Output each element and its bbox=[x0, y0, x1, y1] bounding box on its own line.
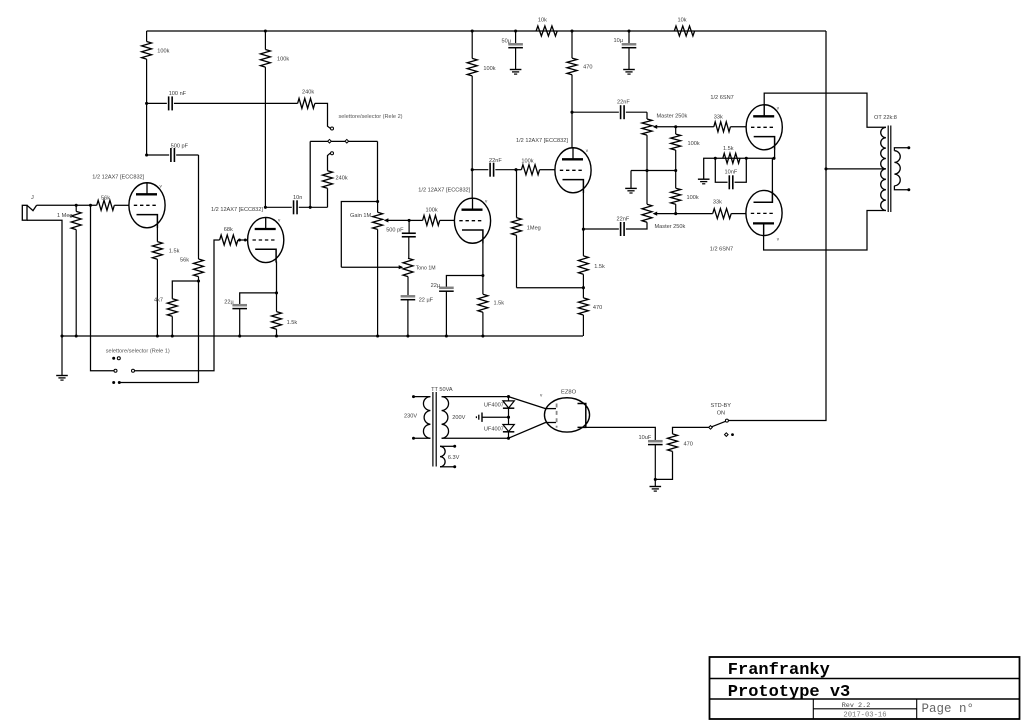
node HV top bbox=[507, 395, 510, 398]
svg-text:1.5k: 1.5k bbox=[494, 301, 505, 307]
node R14 gnd bbox=[481, 334, 484, 337]
node Gain pot top bbox=[376, 200, 379, 203]
resistor R24 33k upper 6SN7 grid bbox=[676, 126, 714, 128]
capacitor C9 50u rail filter bbox=[514, 29, 517, 32]
switch Rele1 row1 contacts bbox=[112, 357, 115, 360]
switch Rele2 lower contact bbox=[331, 152, 334, 155]
svg-text:Franfranky: Franfranky bbox=[728, 661, 830, 680]
svg-text:470: 470 bbox=[593, 305, 602, 311]
svg-text:1.5k: 1.5k bbox=[287, 320, 298, 326]
svg-text:33k: 33k bbox=[713, 200, 722, 206]
transformer OT 22k:8 output bbox=[881, 127, 886, 210]
node V2 grid dots bbox=[238, 239, 241, 242]
ground bias network bbox=[704, 158, 716, 179]
svg-text:22µ: 22µ bbox=[224, 300, 234, 306]
svg-text:10k: 10k bbox=[678, 18, 687, 24]
svg-text:240k: 240k bbox=[302, 89, 314, 95]
node mid-pot bbox=[645, 169, 648, 172]
resistor R12 100k V3 grid bbox=[423, 215, 440, 225]
svg-text:4k7: 4k7 bbox=[154, 298, 163, 304]
svg-text:Page n°: Page n° bbox=[922, 702, 975, 716]
resistor R5 1.5k V1 cathode bbox=[152, 242, 162, 260]
PT HV secondary winding bbox=[442, 397, 449, 439]
svg-text:1/2 12AX7 [ECC832]: 1/2 12AX7 [ECC832] bbox=[92, 174, 144, 180]
wire B+ top rail bbox=[147, 30, 826, 32]
node bias right bbox=[745, 157, 748, 160]
svg-text:1/2 12AX7 [ECC832]: 1/2 12AX7 [ECC832] bbox=[418, 188, 470, 194]
capacitor C11 22nF to upper Master bbox=[572, 111, 619, 113]
title block row lines bbox=[710, 678, 1020, 680]
capacitor C7 22u V3 bypass bbox=[446, 276, 483, 288]
wire HV top lead bbox=[442, 396, 509, 398]
wire cathodes to bias network bbox=[715, 157, 774, 159]
node HV bottom bbox=[507, 437, 510, 440]
svg-text:v: v bbox=[485, 199, 488, 204]
svg-text:EZ8O: EZ8O bbox=[561, 390, 577, 396]
capacitor C3 10n coupling bbox=[265, 206, 291, 208]
tube V3 1/2 12AX7 bbox=[454, 198, 490, 243]
OT secondary winding bbox=[894, 151, 900, 186]
node bias left bbox=[714, 157, 717, 160]
svg-text:10uF: 10uF bbox=[639, 435, 652, 441]
wire HV bottom lead bbox=[442, 437, 509, 439]
svg-text:33k: 33k bbox=[714, 114, 723, 120]
svg-text:22µ: 22µ bbox=[431, 283, 441, 289]
resistor R4 56k grid stopper bbox=[97, 200, 115, 210]
svg-text:56k: 56k bbox=[101, 195, 110, 201]
wire OT center tap bbox=[826, 168, 886, 170]
node input-relay bbox=[89, 204, 92, 207]
svg-text:1.5k: 1.5k bbox=[723, 146, 734, 152]
svg-text:22nF: 22nF bbox=[617, 100, 630, 106]
svg-text:Tono 1M: Tono 1M bbox=[416, 266, 436, 272]
svg-text:STD-BY: STD-BY bbox=[711, 403, 732, 409]
svg-text:OT 22k:8: OT 22k:8 bbox=[874, 115, 897, 121]
svg-text:100k: 100k bbox=[687, 195, 699, 201]
svg-text:200V: 200V bbox=[452, 415, 465, 421]
node V4 tail junction bbox=[582, 286, 585, 289]
resistor R26 1.5k 6SN7 cathode bbox=[723, 153, 740, 163]
resistor R22 100k upper bbox=[675, 127, 677, 134]
svg-text:22nF: 22nF bbox=[617, 216, 630, 222]
svg-text:100k: 100k bbox=[483, 66, 495, 72]
node Master upper wiper bbox=[674, 125, 677, 128]
wire V6 plate to OT bottom bbox=[764, 211, 886, 251]
EZ80 plates dashed bbox=[556, 404, 558, 428]
node input-1Meg bbox=[75, 204, 78, 207]
wire Rele1 row3 bbox=[121, 382, 199, 384]
PT primary winding bbox=[423, 397, 430, 439]
svg-text:J: J bbox=[31, 195, 34, 201]
switch Rele2 upper contact bbox=[331, 127, 334, 130]
svg-text:100k: 100k bbox=[521, 158, 533, 164]
tube V1 1/2 12AX7 bbox=[129, 183, 165, 228]
svg-text:UF4007: UF4007 bbox=[484, 403, 504, 409]
node C3-switch bbox=[309, 206, 312, 209]
svg-text:240k: 240k bbox=[336, 176, 348, 182]
svg-text:v: v bbox=[278, 218, 281, 223]
wire junction down to Rele1 row3 bbox=[198, 281, 200, 383]
wire EZ80 output to filter cap bbox=[586, 427, 656, 441]
wire input to Rele1 row2 bbox=[91, 205, 114, 370]
wire 1Meg link bbox=[517, 287, 584, 289]
switch Rele2 common bar bbox=[310, 140, 377, 142]
PT primary terminals bbox=[412, 395, 415, 398]
potentiometer Gain 1M bbox=[377, 202, 379, 213]
svg-text:1 Meg: 1 Meg bbox=[57, 213, 73, 219]
ground C10 bbox=[623, 69, 635, 71]
wire Rele2 right leg to Gain pot bbox=[377, 141, 379, 201]
wire HV bottom to EZ80 plate2 bbox=[509, 423, 546, 439]
wiper Master lower bbox=[654, 213, 676, 215]
wire node up to Rele2 common left bbox=[309, 141, 311, 207]
EZ80 plate leads bbox=[546, 408, 557, 410]
svg-text:50µ: 50µ bbox=[502, 39, 512, 45]
resistor R20 10k rail filter 1 bbox=[536, 26, 557, 36]
svg-text:100k: 100k bbox=[688, 141, 700, 147]
capacitor C12 22nF to lower Master bbox=[620, 222, 622, 236]
svg-text:500 pF: 500 pF bbox=[171, 144, 189, 150]
wiper Master upper bbox=[654, 126, 676, 128]
svg-text:v: v bbox=[777, 237, 780, 242]
node diode mid bbox=[507, 416, 510, 419]
svg-text:v: v bbox=[586, 148, 589, 153]
EZ80 cathode bracket bbox=[578, 404, 586, 428]
resistor R17 470 V4 plate bbox=[570, 29, 573, 32]
svg-text:Master 250k: Master 250k bbox=[657, 113, 688, 119]
capacitor C13 10nF bypass bbox=[715, 158, 727, 182]
svg-text:10n: 10n bbox=[293, 195, 302, 201]
capacitor C5 500pF bbox=[408, 220, 410, 233]
OT core bbox=[887, 126, 889, 213]
svg-text:ON: ON bbox=[717, 411, 725, 417]
diode D2 UF4007 bbox=[508, 417, 510, 424]
svg-text:Master 250k: Master 250k bbox=[655, 224, 686, 230]
resistor R19 470 tail bbox=[582, 288, 584, 298]
node mid-100k bbox=[674, 169, 677, 172]
svg-text:selettore/selector (Rele 2): selettore/selector (Rele 2) bbox=[339, 114, 403, 120]
wire Rele1 row2 to 68k bbox=[135, 240, 220, 371]
svg-text:100k: 100k bbox=[157, 49, 169, 55]
svg-text:2017-03-16: 2017-03-16 bbox=[843, 712, 886, 720]
svg-text:1/2 12AX7 [ECC832]: 1/2 12AX7 [ECC832] bbox=[516, 138, 568, 144]
ground main bbox=[60, 334, 63, 337]
wire B+ down leg bbox=[729, 31, 827, 421]
wire V4 cathode bbox=[582, 192, 584, 229]
capacitor C1 100nF coupling bbox=[147, 102, 167, 104]
svg-text:230V: 230V bbox=[404, 414, 417, 420]
svg-text:1/2 12AX7 [ECC832]: 1/2 12AX7 [ECC832] bbox=[211, 207, 263, 213]
switch STD-BY bbox=[709, 426, 713, 430]
switch STD-BY open throw bbox=[725, 433, 729, 437]
node V3 plate node bbox=[471, 168, 474, 171]
PT core bbox=[432, 392, 434, 467]
svg-text:6.3V: 6.3V bbox=[448, 455, 460, 461]
svg-text:22 µF: 22 µF bbox=[419, 298, 434, 304]
svg-text:Prototype v3: Prototype v3 bbox=[728, 683, 850, 702]
node V4 cathode junction bbox=[582, 228, 585, 231]
node V1 output node bbox=[145, 153, 148, 156]
resistor R3 1Meg input load bbox=[75, 205, 77, 211]
tube V7 EZ80 rectifier bbox=[544, 398, 589, 432]
node C4 gnd bbox=[238, 334, 241, 337]
resistor R18 1.5k V4 cathode bbox=[582, 229, 584, 256]
node R7-gnd bbox=[171, 334, 174, 337]
node V3 cathode junction bbox=[481, 274, 484, 277]
potentiometer Master 250k lower bbox=[646, 171, 648, 205]
svg-text:500 pF: 500 pF bbox=[386, 228, 404, 234]
wiper Gain bbox=[385, 219, 409, 221]
node V1 plate node bbox=[145, 102, 148, 105]
resistor R9 240k bypass bbox=[327, 188, 329, 207]
svg-text:1/2 6SN7: 1/2 6SN7 bbox=[710, 246, 733, 252]
wire input line bbox=[37, 204, 97, 206]
tube V5 1/2 6SN7 upper bbox=[746, 105, 782, 150]
tube V4 1/2 12AX7 bbox=[555, 148, 591, 193]
resistor R23 100k lower bbox=[675, 171, 677, 189]
node C14 gnd bbox=[654, 478, 657, 481]
wire V2 cathode bbox=[276, 262, 278, 293]
wire OT secondary bottom terminal bbox=[894, 186, 908, 190]
ground diode mid bbox=[482, 416, 509, 418]
switch Rele1 row2 contacts bbox=[114, 369, 117, 372]
wire V3 cathode bbox=[482, 243, 484, 276]
capacitor C4 22u V2 bypass bbox=[240, 293, 277, 305]
svg-text:100k: 100k bbox=[277, 56, 289, 62]
PT heater winding bbox=[440, 446, 445, 467]
resistor R25 33k lower 6SN7 grid bbox=[676, 213, 713, 215]
svg-text:1.5k: 1.5k bbox=[594, 264, 605, 270]
potentiometer Master 250k upper bbox=[646, 112, 648, 119]
resistor R21 10k rail filter 2 bbox=[674, 26, 694, 36]
svg-text:1Meg: 1Meg bbox=[527, 225, 541, 231]
tube V6 1/2 6SN7 lower bbox=[746, 190, 782, 235]
tube V2 1/2 12AX7 bbox=[248, 217, 284, 262]
resistor R8 100k V2 plate load bbox=[264, 29, 267, 32]
svg-text:10nF: 10nF bbox=[725, 170, 738, 176]
node Gain gnd bbox=[376, 334, 379, 337]
ground C14 bbox=[654, 479, 656, 486]
diode D1 UF4007 bbox=[508, 397, 510, 401]
resistor R14 1.5k V3 cathode bbox=[482, 276, 484, 295]
svg-text:v: v bbox=[777, 106, 780, 111]
resistor R7 4k7 bbox=[172, 281, 198, 299]
svg-text:100k: 100k bbox=[426, 208, 438, 214]
node V2 plate node bbox=[264, 206, 267, 209]
resistor R2 240k to selector bbox=[298, 98, 315, 108]
node Master lower wiper bbox=[674, 212, 677, 215]
node C6 gnd bbox=[406, 334, 409, 337]
ground C9 bbox=[510, 69, 522, 71]
title block border bbox=[710, 657, 1020, 719]
svg-text:56k: 56k bbox=[180, 258, 189, 264]
svg-text:v: v bbox=[540, 393, 543, 398]
resistor R11 1.5k V2 cathode bbox=[276, 293, 278, 312]
node R11 gnd bbox=[275, 334, 278, 337]
ground master chain bbox=[630, 171, 632, 189]
wire OT secondary top terminal bbox=[894, 148, 908, 151]
node V4 plate node bbox=[570, 111, 573, 114]
svg-text:470: 470 bbox=[684, 442, 693, 448]
title block dividers bbox=[812, 699, 814, 719]
switch Rele1 row3 contacts bbox=[112, 381, 115, 384]
svg-text:Gain 1M: Gain 1M bbox=[350, 213, 371, 219]
wire C2 down to Rele1 row3 bbox=[198, 155, 200, 256]
svg-text:68k: 68k bbox=[224, 227, 233, 233]
node V2 cathode junction bbox=[275, 291, 278, 294]
capacitor C2 500pF coupling bbox=[147, 154, 170, 156]
potentiometer Tone 1M bbox=[403, 258, 413, 276]
svg-text:10µ: 10µ bbox=[614, 38, 624, 44]
svg-text:TT 50VA: TT 50VA bbox=[431, 387, 453, 393]
svg-text:UF4007: UF4007 bbox=[484, 426, 504, 432]
wire jack sleeve to ground bus bbox=[27, 220, 62, 336]
node V1 cathode gnd bbox=[156, 334, 159, 337]
node Gain wiper bbox=[408, 219, 411, 222]
wire V5 plate to OT top bbox=[764, 93, 886, 127]
wire V1 cathode bbox=[156, 228, 158, 242]
svg-text:1/2 6SN7: 1/2 6SN7 bbox=[710, 95, 733, 101]
wire R4 to V1 grid bbox=[114, 204, 129, 206]
node 1Meg-gnd bbox=[75, 334, 78, 337]
svg-text:selettore/selector (Rele 1): selettore/selector (Rele 1) bbox=[106, 348, 170, 354]
wire HV top to EZ80 plate1 bbox=[509, 397, 546, 409]
svg-text:1.5k: 1.5k bbox=[169, 248, 180, 254]
node R6-R7 junction bbox=[197, 279, 200, 282]
capacitor C10 10u rail filter bbox=[627, 29, 630, 32]
capacitor C6 22uF bbox=[407, 277, 409, 297]
resistor R1 100k V1 plate load bbox=[146, 31, 148, 42]
resistor R16 1Meg bbox=[516, 170, 518, 218]
wire master chain mid rail bbox=[631, 170, 676, 172]
wire V5 cathode down bbox=[774, 150, 776, 159]
PT heater terminals bbox=[440, 445, 455, 447]
svg-text:Rev 2.2: Rev 2.2 bbox=[842, 702, 871, 710]
svg-text:100 nF: 100 nF bbox=[169, 91, 187, 97]
capacitor C8 22nF V3 plate to V4 grid bbox=[472, 169, 488, 171]
resistor R6 56k bbox=[198, 256, 200, 259]
wire R2 to relay contact bbox=[315, 103, 330, 128]
wire ground bus bbox=[62, 335, 583, 337]
resistor R13 100k V3 plate load bbox=[471, 29, 474, 32]
wire V6 cathode up bbox=[771, 158, 773, 190]
node B+ center tap bbox=[824, 167, 827, 170]
resistor R27 470 bleeder bbox=[673, 427, 711, 434]
capacitor C14 10uF filter bbox=[648, 440, 663, 443]
svg-text:10k: 10k bbox=[538, 18, 547, 24]
node C7 gnd bbox=[445, 334, 448, 337]
svg-text:v: v bbox=[160, 184, 163, 189]
resistor R10 68k V2 grid bbox=[220, 235, 238, 245]
svg-text:470: 470 bbox=[583, 65, 592, 71]
svg-text:22nF: 22nF bbox=[489, 158, 502, 164]
wire feedback box to Tone wiper bbox=[341, 202, 377, 268]
node V4 grid node bbox=[514, 168, 517, 171]
connector J input jack bbox=[22, 205, 27, 220]
node cathode junction bbox=[772, 157, 775, 160]
resistor R15 100k V4 grid bbox=[521, 165, 539, 175]
